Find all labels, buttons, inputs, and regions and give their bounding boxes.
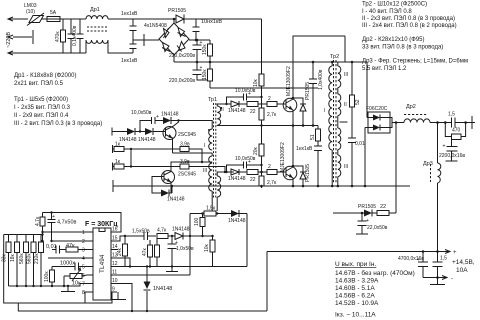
ground output: [437, 278, 439, 285]
svg-text:F = 30КГц: F = 30КГц: [85, 221, 118, 228]
wire half-bridge midpoint junctions: [302, 124, 305, 127]
capacitor 10n x1kV: [193, 19, 223, 40]
diode PR1505 upper flyback: [292, 82, 311, 126]
svg-text:18к: 18к: [10, 253, 16, 262]
svg-text:1нх1кВ: 1нх1кВ: [121, 11, 138, 17]
pin 10: [111, 283, 118, 285]
svg-text:14.60В - 5.1А: 14.60В - 5.1А: [335, 285, 375, 292]
ground left: [67, 286, 69, 291]
pin 11: [111, 274, 118, 276]
svg-text:F06C20C: F06C20C: [366, 106, 388, 112]
svg-text:II - 2х3 вит. ПЭЛ 0.8 (в 3 про: II - 2х3 вит. ПЭЛ 0.8 (в 3 провода): [362, 16, 455, 22]
resistor 22 aux: [377, 204, 396, 216]
resistor 2.7k drive bottom: [259, 160, 277, 188]
ground mid: [171, 267, 173, 272]
svg-text:Др3: Др3: [423, 161, 433, 167]
svg-text:2SC945: 2SC945: [178, 172, 196, 178]
svg-text:1: 1: [82, 230, 85, 236]
capacitor 1n x1kV upper: [121, 11, 138, 40]
node AC input terminal top: [8, 17, 13, 21]
svg-text:5.5 вит. ПЭЛ 1.2: 5.5 вит. ПЭЛ 1.2: [362, 66, 407, 72]
capacitor 1000 pin5: [52, 261, 87, 271]
pin 2: [87, 240, 93, 242]
svg-text:Др3 - Фер. Стержень; L=15мм, D: Др3 - Фер. Стержень; L=15мм, D=6мм: [362, 59, 468, 65]
resistor 52 snubber: [350, 61, 362, 138]
svg-text:10: 10: [112, 278, 118, 284]
capacitor X2: [77, 19, 84, 53]
wire choke bottom leads: [86, 40, 133, 53]
diode 1N4148 drive top: [226, 101, 246, 114]
svg-text:MJE13009F2: MJE13009F2: [286, 66, 292, 96]
resistor 22 drive top: [245, 102, 266, 116]
resistor 150k lower: [202, 62, 213, 88]
diode 1N4148 a: [119, 128, 145, 143]
svg-text:Тр1 - Ш5х5 (Ф2000): Тр1 - Ш5х5 (Ф2000): [14, 97, 68, 103]
wire collector row to Tr1: [179, 121, 213, 130]
svg-text:1,0х50в: 1,0х50в: [176, 246, 194, 252]
wire negative rail y88: [210, 87, 318, 89]
transformer Tr1 polarity dots: [208, 129, 210, 131]
svg-text:-: -: [451, 276, 453, 282]
diode PR1505 aux: [355, 204, 377, 217]
diode 1N4148 row: [228, 210, 246, 224]
resistor 10k sense: [204, 235, 215, 267]
pin 4: [87, 257, 93, 259]
wire mid rail y62: [174, 61, 367, 63]
resistor 1.5k row: [204, 206, 216, 217]
svg-text:14: 14: [112, 244, 118, 250]
wire Vref rail y212.5: [43, 213, 122, 233]
resistor 1k lower: [113, 159, 181, 171]
pin 13: [111, 258, 130, 267]
wire link verticals 1k rows: [130, 149, 132, 167]
resistor 210k: [34, 235, 44, 287]
wire bridge bottom to mid rail: [173, 55, 175, 62]
svg-text:22: 22: [250, 109, 256, 115]
svg-text:470: 470: [452, 128, 461, 134]
transformer Tr2 core: [334, 60, 337, 184]
svg-text:33к: 33к: [2, 253, 8, 262]
transformer Tr2 secondary III lower: [337, 150, 349, 188]
transformer Tr2 secondary II lower: [338, 128, 341, 150]
resistor 150k upper: [202, 40, 213, 62]
wire aux x396 vertical: [395, 123, 397, 214]
capacitor 4700.0x16v: [398, 250, 428, 277]
svg-text:2х21 вит. ПЭЛ 0.5: 2х21 вит. ПЭЛ 0.5: [14, 81, 64, 87]
pin 16: [111, 231, 118, 233]
wire Tr1 winding II upper return to midpoint row: [217, 124, 318, 126]
svg-text:(10): (10): [26, 9, 35, 15]
svg-text:Др2: Др2: [406, 104, 416, 110]
resistor 2 drive bottom: [266, 164, 282, 175]
svg-text:22: 22: [380, 204, 386, 210]
resistor 100: [194, 212, 205, 237]
capacitor 22.0x50v aux: [356, 212, 388, 234]
node AC input terminal bottom: [8, 51, 13, 55]
wire row y241 to pin2: [52, 240, 88, 242]
svg-text:I - 2х35 вит. ПЭЛ 0.3: I - 2х35 вит. ПЭЛ 0.3: [14, 105, 71, 111]
svg-text:14.56В - 6.2А: 14.56В - 6.2А: [335, 293, 375, 300]
pin 6: [87, 274, 93, 276]
svg-text:2,7к: 2,7к: [267, 112, 277, 118]
transistor 2SC945 second: [158, 162, 212, 193]
bridge rectifier 4x1N5408: [159, 23, 189, 55]
svg-text:+14,5В,: +14,5В,: [452, 259, 475, 266]
diode PR1505 lower flyback: [292, 164, 311, 186]
pin 12: [111, 266, 118, 268]
node primary ground terminal: [112, 180, 114, 192]
capacitor 0.01 pin3: [46, 244, 66, 254]
svg-text:33 вит. ПЭЛ 0.8 (в 3 провода): 33 вит. ПЭЛ 0.8 (в 3 провода): [362, 45, 443, 51]
pin 7: [87, 283, 93, 285]
diode 1N4148 b: [138, 128, 156, 143]
svg-text:10А: 10А: [456, 267, 468, 274]
resistor 18k: [10, 235, 20, 287]
svg-text:TL494: TL494: [99, 254, 106, 273]
wire row y266.5: [118, 266, 247, 268]
svg-text:1N4148: 1N4148: [172, 227, 190, 233]
svg-text:Тр1: Тр1: [208, 97, 217, 103]
transformer Tr1 winding II right lower: [217, 176, 221, 197]
capacitor 1n x1kV lower: [121, 40, 138, 64]
svg-text:1N4148: 1N4148: [138, 137, 156, 143]
transformer Tr1 core: [214, 103, 216, 199]
capacitor 0.01 snubber: [348, 138, 365, 187]
wire bridge top to rail: [173, 19, 175, 23]
wire pin1 row y232: [43, 231, 88, 233]
pin 8: [87, 291, 93, 293]
wire output plus rail: [267, 250, 450, 254]
svg-text:10к: 10к: [204, 243, 210, 252]
wire resistor bank top row: [4, 234, 43, 236]
svg-text:14.63В - 3.29А: 14.63В - 3.29А: [335, 278, 379, 285]
svg-text:14.67В - без нагр. (470Ом): 14.67В - без нагр. (470Ом): [335, 269, 415, 277]
svg-text:20к: 20к: [253, 146, 259, 155]
svg-text:4700,0х16в: 4700,0х16в: [398, 256, 424, 262]
wire top rail to choke: [64, 18, 86, 20]
zener 3.9v lower: [180, 159, 226, 173]
wire feedback bottom row: [18, 303, 267, 311]
pin 15: [111, 240, 118, 242]
svg-text:100: 100: [194, 217, 200, 226]
wire feedback vertical x267: [266, 252, 268, 312]
resistor 1k upper: [113, 142, 181, 154]
svg-text:5: 5: [82, 265, 85, 271]
svg-text:14.52В - 10.9А: 14.52В - 10.9А: [335, 300, 379, 307]
resistor 470 bypass: [444, 121, 467, 139]
wire pin8 pin9 ground loop: [85, 292, 112, 303]
wire ground row left extension: [113, 185, 170, 187]
capacitor 1.5 output: [433, 250, 448, 277]
wire 2SC945 emitter to Tr1 tap: [173, 152, 213, 154]
potentiometer 10k: [63, 268, 87, 287]
transformer Tr1 winding I upper: [209, 129, 212, 150]
wire output minus rail: [423, 276, 447, 280]
resistor 100k: [44, 269, 55, 287]
pin 1: [87, 231, 93, 233]
svg-text:2200,0х16в: 2200,0х16в: [439, 153, 465, 159]
capacitor 0.1x400v: [68, 19, 79, 53]
text block Tr2 Dr2 Dr3 specs: [362, 2, 468, 73]
wire drive return row y213 left: [190, 213, 247, 215]
svg-text:220,0х200в: 220,0х200в: [169, 53, 195, 59]
svg-text:4,7к: 4,7к: [157, 228, 167, 234]
capacitor 10.0x50v drive bottom: [225, 156, 262, 173]
text block output table: [335, 261, 415, 319]
wire AC bottom rail: [13, 52, 86, 54]
wire x247 vertical: [246, 214, 248, 267]
resistor 470k: [55, 19, 66, 53]
transistor MJE13009F2 lower: [280, 142, 297, 186]
svg-text:1N4148: 1N4148: [167, 197, 185, 203]
svg-text:II: II: [221, 107, 224, 113]
svg-text:1нх1кВ: 1нх1кВ: [121, 58, 138, 64]
svg-text:+: +: [175, 240, 178, 246]
wire aux row y213: [333, 212, 355, 214]
wire staircase vertical x262 from top rail: [261, 19, 263, 74]
svg-text:0,1х400в: 0,1х400в: [72, 25, 78, 46]
choke Dr3 core: [430, 164, 432, 182]
svg-text:10,0х50в: 10,0х50в: [131, 110, 152, 116]
capacitor 10.0x50v drive top: [225, 88, 262, 105]
choke Dr1 winding top: [86, 16, 108, 19]
svg-text:10,0х50в: 10,0х50в: [235, 156, 256, 162]
wire secondary lower input: [364, 128, 366, 187]
svg-text:5А: 5А: [50, 10, 57, 16]
wire pin4 row: [48, 257, 87, 259]
resistor 10k drive top: [253, 74, 264, 104]
svg-text:210к: 210к: [34, 253, 40, 264]
resistor 22 drive bottom: [245, 170, 266, 184]
wire primary ground row y186: [170, 185, 410, 187]
diode 1N4148 speedup: [161, 112, 179, 125]
svg-text:2,7к: 2,7к: [267, 180, 277, 186]
ground IC: [117, 292, 119, 299]
node input bar left: [111, 128, 113, 136]
svg-text:15: 15: [112, 236, 118, 242]
wire top rail choke to bridge: [108, 18, 176, 20]
svg-text:1нх1кВ: 1нх1кВ: [296, 146, 313, 152]
svg-text:III: III: [203, 168, 207, 174]
thermistor LM03: [24, 3, 44, 26]
svg-text:560к: 560к: [19, 253, 25, 264]
choke Dr2 core: [404, 114, 428, 116]
pin 3: [87, 249, 93, 251]
diode 1N4148 vertical: [144, 265, 173, 312]
svg-text:+: +: [443, 144, 446, 150]
svg-text:Iкз. ~ 10...11А: Iкз. ~ 10...11А: [335, 312, 376, 319]
svg-text:1N4148: 1N4148: [119, 137, 137, 143]
wire upper collector to rail36: [293, 36, 345, 98]
capacitor 1.0x400v blocking: [309, 61, 324, 126]
transformer Tr2 primary winding I: [324, 61, 334, 188]
resistor 2 drive top: [266, 96, 282, 107]
pin 9: [111, 291, 117, 293]
diode 1N4148 feedback: [172, 227, 191, 240]
svg-text:10к: 10к: [72, 281, 81, 287]
svg-text:4,7х50в: 4,7х50в: [57, 220, 77, 226]
capacitor 1.5 series: [448, 112, 470, 128]
wire dc plus node row: [189, 39, 210, 41]
resistor 4.7k supply: [35, 213, 45, 242]
svg-text:220,0х200в: 220,0х200в: [169, 78, 195, 84]
svg-text:~220В: ~220В: [6, 32, 12, 48]
svg-text:+: +: [156, 114, 159, 120]
choke Dr2 winding: [404, 119, 430, 123]
svg-text:10к: 10к: [253, 78, 259, 87]
svg-text:11: 11: [112, 270, 117, 276]
IC TL494: [93, 228, 111, 300]
resistor 4.7k feedback: [157, 228, 168, 239]
svg-text:7: 7: [82, 282, 85, 288]
svg-text:PR1505: PR1505: [305, 82, 311, 100]
resistor 47k a: [142, 240, 153, 268]
svg-text:III - 2 вит. ПЭЛ 0.3 (в 3 пров: III - 2 вит. ПЭЛ 0.3 (в 3 провода): [14, 121, 102, 127]
svg-text:1,5: 1,5: [440, 256, 447, 262]
wire lower collector to midpoint: [292, 126, 294, 167]
svg-text:MJE13009F2: MJE13009F2: [280, 142, 286, 172]
wire resistors bottom row y286: [9, 284, 88, 287]
ground chassis bar: [143, 34, 145, 46]
svg-text:I - 40 вит. ПЭЛ 0.8: I - 40 вит. ПЭЛ 0.8: [362, 9, 412, 15]
node earth terminal middle: [8, 35, 32, 39]
capacitor 220.0x200v upper: [169, 40, 203, 62]
svg-text:PR1505: PR1505: [168, 8, 186, 14]
capacitor 4.7x50v supply: [48, 211, 77, 241]
capacitor 1nx1kV snubber: [296, 146, 322, 186]
wire secondary top lead to rectifier: [338, 62, 367, 118]
junction dots bridge area: [195, 39, 198, 42]
choke Dr1 winding bottom: [86, 40, 108, 43]
wire Dr3 top to rail: [437, 123, 439, 164]
transformer Tr1 winding III left: [203, 153, 212, 211]
choke Dr3 winding: [438, 163, 441, 183]
svg-text:4: 4: [82, 256, 85, 262]
svg-text:I: I: [324, 108, 325, 114]
svg-text:II: II: [344, 102, 347, 108]
svg-text:I: I: [204, 143, 205, 149]
wire Dr3 bottom to output rail: [437, 183, 439, 252]
resistor 47k b: [155, 236, 160, 267]
transistor 2SC945 first: [153, 119, 196, 153]
svg-text:1,0х400в: 1,0х400в: [318, 69, 324, 90]
wire x190 vertical: [189, 214, 191, 276]
capacitor 10.0x50v speedup: [131, 110, 163, 132]
svg-text:1,5: 1,5: [448, 112, 455, 118]
transformer Tr2 center tap plate: [340, 121, 348, 123]
transformer Tr2 secondary III upper: [338, 62, 348, 88]
resistor 51 snubber: [310, 126, 321, 147]
svg-text:Др1 - К18х8х8 (Ф2000): Др1 - К18х8х8 (Ф2000): [14, 73, 76, 79]
pin 5: [87, 266, 93, 268]
svg-text:9: 9: [112, 287, 115, 293]
resistor 560k b: [27, 235, 37, 287]
wire AC top rail left: [13, 18, 28, 20]
svg-text:0,01: 0,01: [355, 141, 365, 147]
wire pin10 out: [118, 284, 132, 312]
choke Dr1 core: [87, 27, 107, 31]
svg-text:2SC945: 2SC945: [178, 132, 196, 138]
svg-text:III: III: [344, 164, 348, 170]
label earth plate: [32, 30, 34, 44]
wire left ground column: [4, 235, 85, 304]
svg-text:560к: 560к: [27, 253, 33, 264]
svg-text:+: +: [248, 159, 251, 165]
svg-text:52: 52: [355, 99, 361, 105]
capacitor 1.5x50v pin15: [132, 229, 150, 241]
svg-text:1N4148: 1N4148: [228, 108, 246, 114]
svg-text:PR1505: PR1505: [358, 204, 376, 210]
svg-text:2: 2: [82, 239, 85, 245]
svg-text:+: +: [248, 91, 251, 97]
svg-text:II - 2х9 вит. ПЭЛ 0.4: II - 2х9 вит. ПЭЛ 0.4: [14, 113, 69, 119]
terminal output probe: [471, 116, 473, 129]
transformer Tr1 winding II right upper: [217, 104, 226, 125]
svg-text:22,0х50в: 22,0х50в: [367, 225, 388, 231]
wire pin11 out: [118, 274, 190, 276]
junction dots caps: [196, 39, 199, 42]
diode 1N4148 under 2SC945: [152, 177, 185, 203]
wire Dr2 to output cap: [430, 122, 452, 124]
diode 1N4148 drive bottom: [226, 169, 246, 182]
svg-text:3: 3: [82, 248, 85, 254]
resistor 560k a: [19, 235, 29, 287]
capacitor 2200.0x16v: [439, 140, 465, 162]
capacitor 220.0x200v lower: [169, 62, 210, 84]
wire caps midpoint to bridge left: [133, 39, 159, 41]
fuse 5A: [41, 10, 64, 22]
text block Dr1 Tr1 specs: [14, 73, 102, 127]
svg-text:U вых. при Iн.: U вых. при Iн.: [335, 261, 376, 268]
transformer Tr2 secondary II: [338, 88, 347, 122]
resistor 2.7k drive top: [253, 104, 277, 160]
resistor 24k pin14: [117, 235, 128, 267]
svg-text:+: +: [453, 250, 457, 256]
svg-text:10,0х50в: 10,0х50в: [235, 88, 256, 94]
svg-text:22: 22: [250, 177, 256, 183]
svg-text:13: 13: [112, 253, 118, 259]
svg-text:1N4148: 1N4148: [153, 286, 172, 292]
svg-text:Др2 - К28х12х10 (Ф95): Др2 - К28х12х10 (Ф95): [362, 37, 424, 43]
transistor MJE13009F2 upper: [282, 66, 297, 125]
svg-text:Тр2: Тр2: [330, 54, 339, 60]
svg-text:1N4148: 1N4148: [228, 218, 246, 224]
svg-text:12: 12: [112, 261, 118, 267]
svg-text:1N4148: 1N4148: [161, 112, 179, 118]
rectifier F06C20C: [365, 106, 404, 133]
svg-text:10нх1кВ: 10нх1кВ: [201, 19, 222, 25]
diode PR1505 on top rail: [168, 8, 262, 24]
wire feedback row y236: [111, 236, 203, 241]
pin 14: [111, 249, 118, 251]
capacitor 1.0x50v b: [168, 235, 195, 268]
wire rail36 drop to mid rail: [344, 36, 346, 62]
svg-text:III - 2х4 вит. ПЭЛ 0.8 (в 2 пр: III - 2х4 вит. ПЭЛ 0.8 (в 2 провода): [362, 23, 457, 29]
resistor 33k: [2, 235, 12, 287]
svg-text:Тр2 - Ш10х12 (Ф2500С): Тр2 - Ш10х12 (Ф2500С): [362, 2, 427, 8]
resistor 47k pin3: [66, 243, 87, 252]
svg-text:Др1: Др1: [90, 7, 100, 13]
svg-text:1000х: 1000х: [60, 261, 75, 267]
zener 3.9v upper: [180, 142, 203, 164]
svg-text:1N4148: 1N4148: [228, 176, 246, 182]
svg-text:III: III: [344, 72, 348, 78]
